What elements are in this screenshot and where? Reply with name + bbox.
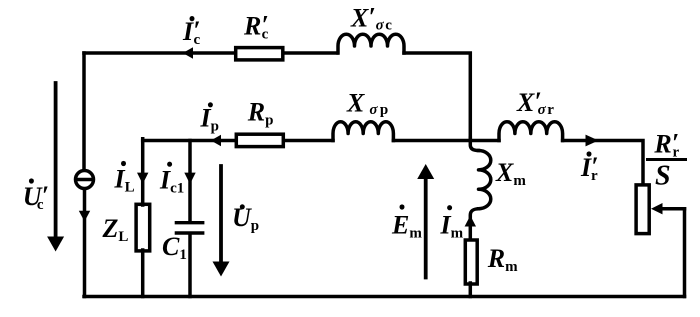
inductor X_sigma-p [333,122,393,141]
svg-text:Ip: Ip [200,104,219,135]
wire Z_L branch upper [141,139,145,205]
dot of I'_c [190,16,195,21]
svg-text:S: S [655,161,671,192]
dot of E_m [400,204,405,209]
svg-text:Em: Em [391,211,422,242]
arrowhead I'_c (left) [183,47,193,58]
svg-text:X′σr: X′σr [516,87,554,118]
arrowhead I_m (up) [465,216,476,227]
dot of I_L [121,161,126,166]
fraction bar R'_r/S [648,158,686,161]
inductor X_m [479,151,491,209]
voltage arrow U'_c shaft [54,83,58,237]
dot of I'_r [587,151,592,156]
source symbol circle [76,171,94,189]
arrowhead I_L (down) [137,173,148,184]
arrowhead U'_c (down) [47,237,64,252]
dot of U_p [240,204,245,209]
arrowhead I_c1 (down) [184,173,195,184]
svg-text:Im: Im [440,210,464,241]
wire middle rail between Rp and Xsigma-p [285,139,333,143]
inductor X'_sigma-r [499,122,563,141]
svg-text:IL: IL [114,165,135,196]
capacitor C1 bottom plate [176,231,202,234]
arrowhead I'_r (right) [586,135,599,147]
wire left rail (source branch) [82,53,86,169]
wire top rail right segment + right drop to junction [404,53,470,138]
resistor R'_c [236,48,283,60]
arrowhead E_m (up) [417,164,434,179]
svg-text:X′σc: X′σc [350,3,392,34]
resistor R_p [236,134,283,146]
resistor R_m [465,240,477,284]
wire middle rail right of X'sigma-r to right drop [563,141,643,184]
wire middle rail left segment [143,139,235,143]
svg-text:Ic1: Ic1 [159,165,184,196]
arrowhead U_p (down) [213,262,230,277]
wire C1 branch upper [188,141,192,222]
wire C1 branch lower [188,235,192,297]
svg-text:R′r: R′r [653,129,679,161]
wire source to bottom rail [83,190,87,297]
impedance Z_L box [136,204,150,251]
svg-text:Rp: Rp [247,97,274,128]
wire bottom rail [84,295,685,299]
svg-text:I′r: I′r [580,152,598,184]
dot of I_c1 [167,162,172,167]
svg-text:Up: Up [232,203,259,234]
arrowhead wiper (left into box) [651,203,663,214]
dot of I_m [447,205,452,210]
wire X_m coil exit lead [470,209,478,238]
dot of I_p [208,102,213,107]
wire Z_L branch lower [141,250,145,297]
svg-text:R′c: R′c [243,11,269,43]
emf arrow E_m shaft [424,178,428,278]
svg-text:Xσp: Xσp [346,89,388,119]
wire middle rail between Xsigma-p and junction to X'sigma-r [393,139,499,143]
voltage arrow U_p shaft [219,166,223,262]
svg-text:Xm: Xm [495,158,526,189]
inductor X'_sigma-c [338,34,404,53]
svg-text:C1: C1 [162,232,187,263]
wire top rail mid segment [285,51,338,55]
wire wiper vertical to bottom rail [683,209,687,297]
source symbol bar [77,178,93,182]
arrowhead source branch (down) [79,211,90,222]
wire magnetizing branch: junction through coil lead [470,138,478,151]
svg-text:U′c: U′c [23,181,49,213]
dot of U'_c [29,178,34,183]
arrowhead I_p (left) [211,135,221,146]
resistor R'_r/S box [636,185,649,234]
wire wiper horizontal [660,207,685,211]
wire top rail left segment [84,51,234,55]
capacitor C1 top plate [176,221,202,224]
wire R_m to bottom rail [469,283,473,297]
svg-text:ZL: ZL [102,214,129,245]
svg-text:Rm: Rm [487,244,518,275]
